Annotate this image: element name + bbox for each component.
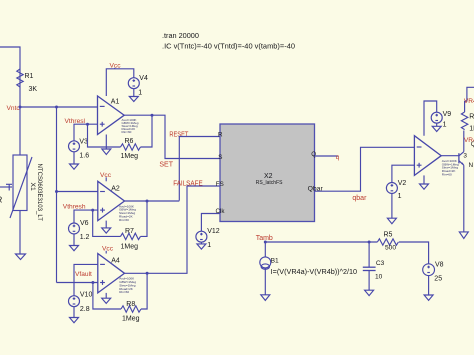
wire B1 to ground	[264, 268, 266, 295]
wire R1 to Vntc node	[19, 87, 21, 107]
svg-text:R: R	[0, 196, 3, 205]
wire Q3 collector to R4	[463, 131, 465, 152]
svg-text:V6: V6	[80, 220, 89, 227]
wire A1 feedback right leg	[141, 115, 153, 147]
svg-text:FAILSAFE: FAILSAFE	[173, 181, 203, 188]
svg-text:A1: A1	[111, 99, 120, 106]
net flag Vcc at A2	[100, 172, 112, 182]
junction A4 output	[146, 272, 149, 275]
svg-text:Vcc: Vcc	[102, 245, 114, 252]
net flag Vcc at A4	[102, 245, 114, 253]
svg-text:R6: R6	[125, 138, 134, 145]
ground V8	[424, 295, 433, 300]
wire Vfault to A4 minus	[74, 264, 98, 295]
wire Vntc bus vertical	[56, 107, 58, 283]
ground V12	[197, 244, 206, 249]
transistor Q3	[459, 141, 474, 169]
svg-text:q: q	[336, 154, 340, 161]
junction A2 plus feedback	[91, 209, 94, 212]
wire thermistor top lead	[19, 107, 21, 155]
svg-text:V9: V9	[443, 111, 452, 118]
wire V4 to ground	[133, 89, 135, 97]
wire thermistor bottom lead	[19, 211, 21, 255]
wire A2 output to RESET riser	[125, 200, 180, 202]
wire RESET	[179, 137, 220, 201]
junction A2 output	[146, 200, 149, 203]
thermistor X1	[0, 155, 32, 218]
svg-text:25: 25	[434, 275, 442, 282]
svg-text:qbar: qbar	[352, 195, 367, 202]
svg-text:Vfault: Vfault	[75, 271, 92, 278]
op-amp A2 parameters	[119, 204, 136, 222]
svg-text:.tran 20000: .tran 20000	[162, 31, 199, 40]
svg-text:1Meg: 1Meg	[122, 316, 140, 323]
wire R5 to V8	[399, 242, 429, 264]
wire Q3 emitter to ground	[463, 165, 465, 232]
svg-text:VR4b: VR4b	[464, 137, 474, 144]
ground V10	[70, 318, 79, 323]
wire A1 feedback left leg	[88, 124, 121, 147]
ground V4	[129, 97, 138, 102]
wire V8 to ground	[428, 276, 430, 295]
junction Tamb at B1	[264, 241, 267, 244]
wire V3 to ground	[73, 152, 75, 164]
ground V3	[70, 164, 79, 169]
svg-text:R: R	[218, 131, 223, 138]
svg-text:NTCS0603E3103_LT: NTCS0603E3103_LT	[36, 164, 43, 222]
junction bus at A2	[55, 190, 58, 193]
svg-text:FS: FS	[216, 181, 224, 188]
wire V12 to ground	[200, 242, 202, 244]
op-amp A4	[98, 254, 125, 293]
svg-text:R1: R1	[25, 73, 34, 80]
ground A2	[102, 228, 111, 233]
wire V2 to ground	[391, 194, 393, 219]
svg-text:R4: R4	[469, 114, 474, 121]
ground V9	[432, 126, 441, 131]
ground Q3 emitter	[459, 232, 468, 239]
voltage source V2	[386, 180, 406, 200]
wire A4 feedback right leg	[141, 273, 147, 309]
svg-text:X1: X1	[29, 183, 36, 192]
wire Tamb rail	[265, 241, 377, 243]
svg-text:V12: V12	[207, 228, 220, 235]
svg-text:V4: V4	[139, 75, 148, 82]
svg-text:10: 10	[375, 274, 383, 281]
svg-text:3K: 3K	[29, 86, 38, 93]
svg-text:R7: R7	[125, 228, 134, 235]
capacitor C3	[363, 242, 385, 281]
svg-text:R8: R8	[126, 301, 135, 308]
wire A2 feedback left leg	[93, 210, 121, 236]
wire A1 supply	[106, 69, 134, 96]
op-amp A1 parameters	[122, 118, 139, 134]
ground A4	[102, 298, 111, 303]
voltage source V12	[196, 228, 220, 249]
wire A2 minus from bus	[57, 191, 98, 193]
svg-text:Q: Q	[311, 151, 316, 158]
resistor R1	[17, 69, 38, 93]
wire Vthresl	[74, 124, 98, 141]
ground C3	[365, 290, 374, 295]
svg-text:C3: C3	[376, 260, 385, 267]
voltage source V9	[431, 111, 451, 128]
voltage source V6	[69, 220, 90, 241]
wire Q output	[315, 155, 339, 157]
svg-text:V8: V8	[435, 261, 444, 268]
resistor R8	[121, 301, 141, 323]
svg-text:X2: X2	[264, 173, 273, 180]
svg-text:B1: B1	[271, 257, 279, 264]
wire A2 bottom pin	[105, 221, 107, 228]
svg-text:1.2: 1.2	[80, 234, 90, 241]
voltage source V4	[128, 75, 148, 97]
svg-text:V3: V3	[79, 138, 88, 145]
wire V10 to ground	[73, 307, 75, 318]
op-amp A2	[98, 181, 125, 220]
ground A1	[102, 149, 111, 155]
svg-text:I=(V(VR4a)-V(VR4b))^2/10: I=(V(VR4a)-V(VR4b))^2/10	[271, 269, 358, 276]
ground V2	[387, 218, 396, 224]
svg-text:500: 500	[385, 244, 396, 251]
svg-text:Tamb: Tamb	[256, 235, 273, 242]
wire V12 to Clk	[201, 214, 220, 232]
behavioral source B1	[260, 242, 357, 276]
svg-text:1Meg: 1Meg	[121, 153, 139, 160]
resistor R4	[461, 112, 474, 132]
svg-text:A2: A2	[111, 186, 120, 193]
svg-text:Vntc: Vntc	[7, 105, 21, 112]
svg-text:N: N	[469, 162, 474, 169]
svg-text:1: 1	[443, 121, 447, 128]
svg-text:Rin=60: Rin=60	[119, 290, 129, 294]
resistor R7	[121, 228, 141, 251]
op-amp A1	[98, 96, 125, 135]
voltage source V3	[69, 138, 90, 159]
op-amp A3	[414, 136, 441, 176]
svg-text:2.8: 2.8	[80, 306, 90, 313]
wire Qbar to A3 minus	[315, 147, 415, 191]
svg-text:SET: SET	[159, 162, 173, 169]
svg-text:Rin=60: Rin=60	[119, 218, 129, 222]
svg-text:1Meg: 1Meg	[121, 244, 139, 251]
junction A4 plus feedback	[91, 281, 94, 284]
resistor R6	[121, 138, 141, 160]
svg-text:1: 1	[138, 90, 142, 97]
svg-text:V2: V2	[398, 180, 407, 187]
wire V9 to ground	[436, 123, 438, 126]
voltage source V8	[423, 261, 444, 282]
junction A1 plus feedback	[86, 123, 89, 126]
op-amp A4 parameters	[119, 277, 136, 295]
junction Vntc at R1	[19, 106, 22, 109]
junction A1 output	[151, 114, 154, 117]
svg-text:R5: R5	[384, 232, 393, 239]
svg-text:Vcc: Vcc	[110, 63, 122, 70]
ground V6	[70, 246, 79, 251]
ground A3	[420, 184, 429, 189]
wire A1 bottom pin	[105, 135, 107, 150]
wire A4 output FAILSAFE riser	[125, 186, 221, 273]
wire C3 to ground	[368, 271, 370, 291]
svg-text:V10: V10	[80, 292, 93, 299]
svg-text:1.6: 1.6	[79, 153, 89, 160]
wire V2 to A3 plus	[392, 165, 415, 182]
svg-text:RS_latchFS: RS_latchFS	[256, 180, 283, 186]
wire A1 output to SET	[124, 115, 220, 158]
svg-text:S: S	[218, 154, 222, 161]
op-amp A3 parameters	[442, 159, 459, 177]
resistor R5	[377, 232, 398, 252]
svg-text:.IC v(Tntc)=-40 v(Tntd)=-40 v(: .IC v(Tntc)=-40 v(Tntd)=-40 v(tamb)=-40	[162, 41, 295, 50]
wire A2 feedback right leg	[141, 201, 148, 236]
wire A3 bottom pin	[423, 175, 425, 184]
voltage source V10	[69, 292, 93, 313]
svg-text:1: 1	[398, 193, 402, 200]
net flag Vcc at A1	[110, 63, 122, 70]
wire top-left feed	[0, 47, 20, 69]
svg-text:A4: A4	[111, 258, 120, 265]
wire A4 bottom pin	[105, 293, 107, 298]
wire A3 supply to V9	[424, 101, 437, 136]
latch X2	[220, 124, 315, 222]
svg-text:Rin=60: Rin=60	[442, 173, 452, 177]
wire V6 to ground	[73, 234, 75, 246]
wire R4 top rail	[465, 87, 474, 112]
junction Vntc bus tap	[55, 106, 58, 109]
svg-text:1: 1	[207, 242, 211, 249]
svg-text:Clk: Clk	[216, 208, 226, 215]
svg-text:VR4a: VR4a	[464, 98, 474, 105]
junction Tamb at C3	[368, 241, 371, 244]
svg-text:1K: 1K	[469, 125, 474, 132]
wire Vthresh	[74, 210, 98, 223]
wire A4 feedback left leg	[93, 283, 121, 310]
ground thermistor	[16, 254, 26, 260]
svg-text:Vthresh: Vthresh	[63, 203, 86, 210]
ground B1	[261, 295, 270, 301]
svg-text:3: 3	[463, 152, 467, 159]
wire A3 output	[441, 155, 459, 157]
wire bus to A4 plus	[57, 282, 98, 284]
wire Vntc horizontal	[20, 106, 98, 108]
svg-text:Rin=60: Rin=60	[122, 130, 132, 134]
